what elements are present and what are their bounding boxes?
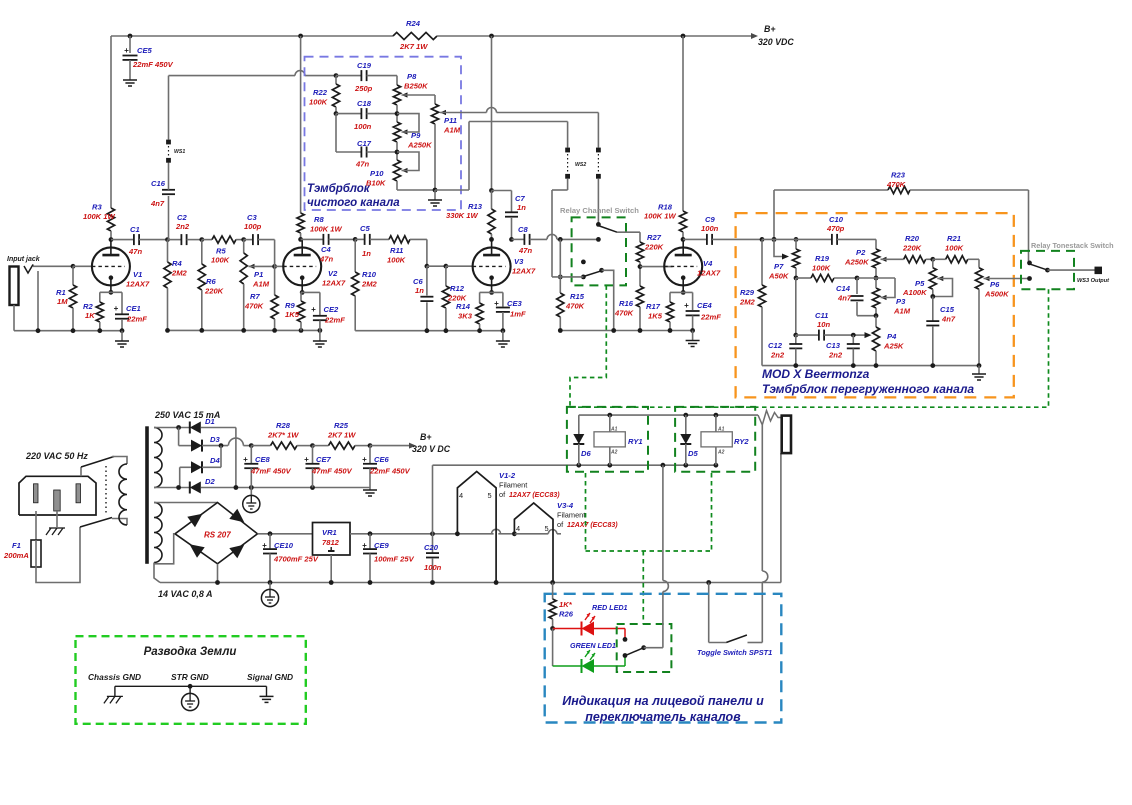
svg-text:100n: 100n — [424, 563, 442, 572]
wire tone stack bottom node — [397, 189, 435, 191]
transformer core — [145, 426, 149, 564]
svg-text:330K 1W: 330K 1W — [446, 211, 478, 220]
svg-text:R10: R10 — [362, 270, 377, 279]
wire WS1 up and right to tone stack R22 — [168, 76, 170, 140]
svg-text:+: + — [362, 541, 367, 550]
regulator VR1 7812 — [313, 523, 351, 556]
svg-text:C12: C12 — [768, 341, 783, 350]
svg-text:V2: V2 — [328, 269, 338, 278]
capacitor C2 2n2 — [168, 239, 182, 241]
ground V4 stage — [692, 331, 694, 341]
svg-text:5: 5 — [545, 524, 549, 533]
svg-text:C8: C8 — [518, 225, 528, 234]
node P3 bottom dot — [874, 313, 879, 318]
svg-text:Filament: Filament — [499, 481, 527, 490]
resistor R16 470K — [639, 267, 641, 286]
svg-text:5: 5 — [488, 491, 492, 500]
svg-text:CE8: CE8 — [255, 455, 271, 464]
capacitor CE10 4700mF 25V — [269, 534, 271, 549]
capacitor CE6 22mF 450V — [369, 446, 371, 464]
svg-text:12AX7: 12AX7 — [126, 280, 150, 289]
resistor R21 100K — [933, 258, 946, 260]
svg-text:2K7 1W: 2K7 1W — [327, 431, 356, 440]
svg-text:D6: D6 — [581, 449, 591, 458]
node grid junction dot — [71, 264, 76, 269]
control link RY2 to LED switch — [711, 473, 713, 551]
heater V3-4 filament — [514, 503, 553, 583]
svg-text:C5: C5 — [360, 224, 370, 233]
svg-text:100p: 100p — [244, 222, 262, 231]
svg-text:P6: P6 — [990, 280, 1000, 289]
potentiometer P5 A100K — [932, 259, 934, 267]
potentiometer P9 A250K — [393, 122, 400, 142]
svg-text:WS1: WS1 — [174, 149, 185, 155]
svg-text:R1: R1 — [56, 288, 66, 297]
svg-text:1K*: 1K* — [559, 600, 573, 609]
svg-text:2K7* 1W: 2K7* 1W — [267, 431, 299, 440]
resistor R4 2M2 — [167, 240, 169, 262]
svg-text:Relay Channel Switch: Relay Channel Switch — [560, 206, 639, 215]
diode D1 — [190, 422, 201, 434]
capacitor CE8 47mF 450V — [250, 446, 252, 464]
svg-text:C7: C7 — [515, 194, 525, 203]
potentiometer P2 A250K — [875, 239, 877, 249]
wire hop over filament leg V1-2 pin5 — [492, 529, 501, 534]
wire switch arm to R27 — [617, 231, 640, 233]
wire LV secondary bottom to bridge left — [154, 563, 160, 583]
svg-text:R16: R16 — [619, 299, 634, 308]
capacitor C6 1n — [426, 266, 428, 295]
potentiometer P6 A500K — [978, 259, 980, 267]
box relay RY2 — [675, 407, 755, 472]
node C7 bottom dot — [509, 237, 514, 242]
svg-text:A25K: A25K — [883, 342, 904, 351]
svg-text:R28: R28 — [276, 421, 291, 430]
svg-text:Input jack: Input jack — [7, 256, 41, 263]
wire V2 stage ground rail — [168, 329, 320, 331]
svg-text:Filament: Filament — [557, 511, 585, 520]
node P5 bottom dot — [930, 294, 935, 299]
svg-text:A250K: A250K — [844, 258, 869, 267]
svg-text:R3: R3 — [92, 203, 102, 212]
resistor R3 100K 1W — [110, 36, 112, 208]
svg-text:220K: 220K — [644, 243, 664, 252]
diode D6 — [578, 415, 580, 434]
svg-text:12AX7 (ECC83): 12AX7 (ECC83) — [509, 492, 560, 499]
svg-text:CE3: CE3 — [507, 299, 523, 308]
node C6 top dot — [425, 264, 430, 269]
resistor R9 1K5 — [300, 292, 302, 301]
capacitor CE9 100mF 25V — [369, 534, 371, 549]
wire V3 stage ground rail — [355, 330, 503, 332]
wire D1 to right drop — [201, 427, 236, 429]
svg-text:R17: R17 — [646, 302, 661, 311]
svg-text:+: + — [362, 455, 367, 464]
capacitor CE4 22mF electrolytic — [692, 292, 694, 310]
ground overdrive tonestack — [978, 366, 980, 374]
svg-text:C3: C3 — [247, 213, 257, 222]
svg-text:R23: R23 — [891, 171, 906, 180]
box relay channel switch — [572, 217, 626, 285]
wire V1 ground rail — [14, 330, 122, 332]
switch WS1 — [166, 158, 171, 163]
svg-text:C17: C17 — [357, 139, 372, 148]
svg-text:R18: R18 — [658, 203, 673, 212]
svg-text:2M2: 2M2 — [739, 298, 756, 307]
svg-text:10n: 10n — [817, 320, 830, 329]
wire hop over D1-D2 link — [228, 438, 243, 445]
svg-text:C11: C11 — [815, 311, 828, 320]
node V1 anode dot — [109, 237, 114, 242]
resistor R29 2M2 — [761, 239, 763, 285]
capacitor C8 47n — [512, 238, 525, 240]
svg-text:+: + — [494, 299, 499, 308]
svg-text:R9: R9 — [285, 301, 295, 310]
terminal WS3 output — [1095, 267, 1103, 275]
wire cable squiggle to connector — [758, 411, 782, 425]
wire tone stack gnd-node to WS2 left — [435, 189, 469, 191]
svg-text:R13: R13 — [468, 202, 483, 211]
resistor R18 100K 1W — [682, 36, 684, 211]
diode D4 — [180, 466, 191, 468]
node C11-C13 dot — [851, 333, 856, 338]
svg-text:A1M: A1M — [443, 126, 461, 135]
node R12 top dot — [444, 264, 449, 269]
resistor R20 220K — [881, 258, 904, 260]
wire squiggle tap down to toggle switch — [761, 425, 763, 571]
svg-text:B250K: B250K — [404, 82, 428, 91]
svg-text:CE9: CE9 — [374, 541, 390, 550]
svg-text:1n: 1n — [362, 249, 371, 258]
svg-text:320 VDC: 320 VDC — [758, 37, 794, 47]
wire VR1 ground pin — [330, 555, 332, 583]
node V2 cathode junction — [300, 290, 305, 295]
ground earth circle below CE10 rail — [269, 583, 271, 590]
svg-text:A100K: A100K — [902, 288, 927, 297]
svg-text:P3: P3 — [896, 297, 906, 306]
wire hop over R13 drop — [487, 108, 497, 113]
node P9-P10-C17 dot — [395, 150, 400, 155]
resistor R7 470K — [274, 240, 276, 295]
svg-text:R12: R12 — [450, 284, 465, 293]
connector footswitch jack — [782, 416, 791, 454]
svg-text:RS 207: RS 207 — [204, 531, 231, 540]
svg-text:+: + — [311, 305, 316, 314]
wire B+ rail left segment — [111, 35, 393, 37]
ground below CE5 — [123, 79, 137, 81]
svg-text:100K: 100K — [812, 264, 831, 273]
svg-text:470K: 470K — [565, 302, 585, 311]
transformer primary winding — [119, 464, 127, 525]
wire D3 to output node — [202, 445, 228, 447]
svg-text:12AX7: 12AX7 — [697, 269, 721, 278]
svg-text:of: of — [557, 520, 564, 529]
svg-text:R20: R20 — [905, 234, 920, 243]
svg-text:4n7: 4n7 — [941, 315, 956, 324]
svg-text:22mF 450V: 22mF 450V — [369, 467, 411, 476]
svg-text:D4: D4 — [210, 456, 220, 465]
resistor R28 2K7 1W — [251, 445, 270, 447]
box LED selector switch — [617, 624, 672, 672]
svg-text:F1: F1 — [12, 541, 21, 550]
svg-text:200mA: 200mA — [3, 551, 29, 560]
resistor R26 1K — [552, 583, 554, 600]
svg-text:D5: D5 — [688, 449, 698, 458]
svg-text:Chassis GND: Chassis GND — [88, 672, 141, 682]
svg-text:V1: V1 — [133, 270, 142, 279]
svg-text:C16: C16 — [151, 179, 166, 188]
svg-text:2n2: 2n2 — [828, 351, 843, 360]
node V4 grid dot — [638, 264, 643, 269]
switch relay tonestack contacts — [1027, 261, 1032, 266]
wire input jack to V1 grid — [33, 265, 73, 267]
capacitor C10 470p — [796, 238, 832, 240]
svg-text:R21: R21 — [947, 234, 961, 243]
resistor R11 100K — [389, 236, 410, 243]
svg-text:чистого канала: чистого канала — [307, 197, 400, 209]
wire bridge minus down to 0V rail — [217, 564, 219, 583]
svg-text:STR GND: STR GND — [171, 672, 209, 682]
svg-text:R27: R27 — [647, 233, 662, 242]
wire P7 bottom to C11 node — [795, 278, 797, 335]
capacitor C18 100n — [336, 113, 361, 115]
svg-text:2n2: 2n2 — [175, 222, 190, 231]
svg-text:R26: R26 — [559, 610, 574, 619]
junction dots on B+ rail — [128, 34, 133, 39]
wire rail corner up to connector — [780, 453, 782, 582]
ground STR earth circle — [189, 686, 191, 693]
capacitor CE5 22mF 450V — [129, 36, 131, 53]
capacitor CE3 1mF electrolytic — [502, 292, 504, 306]
svg-text:A2: A2 — [717, 450, 725, 456]
svg-text:C13: C13 — [826, 341, 841, 350]
svg-text:12AX7 (ECC83): 12AX7 (ECC83) — [567, 522, 618, 529]
svg-text:A1M: A1M — [893, 307, 911, 316]
svg-text:A250K: A250K — [407, 141, 432, 150]
wire VR1 output +12V — [350, 533, 494, 535]
capacitor C5 1n — [355, 238, 364, 240]
node R29 top dot — [760, 237, 765, 242]
svg-text:A1: A1 — [717, 427, 725, 433]
capacitor C9 100n — [683, 238, 707, 240]
svg-text:470K: 470K — [614, 309, 634, 318]
triode V3 12AX7 — [473, 247, 511, 285]
svg-text:1K: 1K — [85, 311, 95, 320]
wire HV secondary top to D1 — [154, 427, 190, 429]
svg-text:WS2: WS2 — [575, 162, 586, 168]
svg-text:Signal GND: Signal GND — [247, 672, 293, 682]
svg-text:V4: V4 — [703, 259, 713, 268]
svg-text:R8: R8 — [314, 215, 324, 224]
node R20-R21 dot — [930, 257, 935, 262]
node V4 anode dot — [681, 237, 686, 242]
svg-text:P4: P4 — [887, 332, 897, 341]
svg-text:12AX7: 12AX7 — [512, 267, 536, 276]
capacitor CE7 47mF 450V — [312, 446, 314, 464]
svg-text:47n: 47n — [128, 247, 142, 256]
resistor R15 470K — [559, 239, 561, 293]
wire R11 to V3 grid corner — [426, 239, 428, 266]
svg-text:P9: P9 — [411, 131, 421, 140]
node R26 bottom dot — [550, 626, 555, 631]
wire overdrive tonestack ground rail — [762, 365, 979, 367]
svg-text:CE10: CE10 — [274, 541, 294, 550]
resistor R12 220K — [445, 266, 447, 286]
svg-text:1mF: 1mF — [510, 310, 526, 319]
diode D3 — [191, 440, 202, 452]
heater V1-2 filament — [457, 472, 496, 583]
diode D2 — [190, 482, 201, 494]
svg-text:B+: B+ — [420, 432, 432, 442]
svg-text:R4: R4 — [172, 259, 182, 268]
svg-text:Разводка Земли: Разводка Земли — [144, 646, 237, 658]
svg-text:V1-2: V1-2 — [499, 471, 516, 480]
ground signal symbol — [266, 686, 268, 696]
transformer HV secondary winding — [154, 428, 162, 488]
svg-text:C1: C1 — [130, 225, 140, 234]
svg-text:+: + — [262, 541, 267, 550]
control link channel switch to relays — [570, 285, 606, 407]
capacitor CE2 22mF electrolytic — [319, 292, 321, 315]
svg-text:1n: 1n — [415, 286, 424, 295]
svg-text:of: of — [499, 490, 506, 499]
svg-text:250p: 250p — [354, 84, 373, 93]
svg-text:220 VAC 50 Hz: 220 VAC 50 Hz — [25, 451, 88, 461]
svg-text:22mF: 22mF — [700, 313, 721, 322]
wire hop over R8 drop — [295, 71, 305, 76]
svg-text:47n: 47n — [319, 255, 333, 264]
wire HV bottom rail — [201, 487, 370, 489]
svg-text:22mF: 22mF — [126, 315, 147, 324]
wire V4 stage ground rail — [560, 330, 692, 332]
switch mains double pole — [80, 467, 82, 476]
wire +12V relay rail riser — [432, 465, 434, 534]
box relay RY1 — [567, 407, 648, 472]
switch WS2 — [565, 148, 570, 153]
svg-text:100K: 100K — [945, 244, 964, 253]
node B+ feed dot — [249, 443, 254, 448]
svg-text:100K 1W: 100K 1W — [644, 212, 676, 221]
resistor R2 1K — [99, 292, 101, 302]
node P8-P9-C18 dot — [395, 111, 400, 116]
svg-text:R15: R15 — [570, 292, 585, 301]
svg-text:C20: C20 — [424, 543, 439, 552]
node P7 bottom dot — [794, 276, 799, 281]
capacitor C14 4n7 — [856, 278, 858, 294]
svg-text:+: + — [243, 455, 248, 464]
potentiometer P3 A1M — [872, 288, 879, 308]
node C2 right dot — [199, 237, 204, 242]
wire +12V relay rail — [433, 464, 716, 466]
svg-text:C14: C14 — [836, 284, 851, 293]
wire P11 wiper line to WS2 right — [440, 110, 446, 115]
svg-text:7812: 7812 — [322, 538, 340, 547]
switch relay contact lower — [581, 260, 586, 265]
svg-text:R2: R2 — [83, 302, 93, 311]
node R22 bottom dot — [334, 111, 339, 116]
LED RED LED1 — [553, 628, 582, 630]
svg-text:Тэмбрблок: Тэмбрблок — [307, 183, 371, 195]
wire 0V heater rail — [160, 582, 781, 584]
svg-text:VR1: VR1 — [322, 528, 337, 537]
svg-text:+: + — [124, 46, 129, 55]
svg-text:4n7: 4n7 — [150, 199, 165, 208]
resistor R14 3K3 — [479, 292, 481, 303]
svg-text:2M2: 2M2 — [361, 280, 378, 289]
svg-text:R5: R5 — [216, 247, 226, 256]
svg-text:R14: R14 — [456, 302, 471, 311]
svg-text:CE7: CE7 — [316, 455, 332, 464]
svg-text:47n: 47n — [355, 160, 369, 169]
svg-text:RY2: RY2 — [734, 437, 749, 446]
svg-text:14 VAC 0,8 A: 14 VAC 0,8 A — [158, 589, 213, 599]
svg-text:2M2: 2M2 — [171, 269, 188, 278]
node CE7 dot — [310, 443, 315, 448]
svg-text:CE6: CE6 — [374, 455, 390, 464]
node V3 cathode junction — [489, 290, 494, 295]
control link RY1 to LED switch — [585, 473, 587, 551]
control link main horizontal — [570, 406, 1049, 408]
svg-text:+: + — [114, 304, 119, 313]
triode V1 12AX7 — [92, 247, 130, 285]
relay coil RY1 — [594, 432, 625, 447]
svg-text:C10: C10 — [829, 215, 844, 224]
svg-text:A50K: A50K — [768, 272, 789, 281]
svg-text:320 V DC: 320 V DC — [412, 444, 451, 454]
resistor R22 100K — [335, 76, 337, 84]
svg-text:C2: C2 — [177, 213, 187, 222]
wire D1 node down to D3 — [178, 428, 180, 446]
capacitor C13 2n2 — [852, 335, 854, 344]
wire B+ DC arrow — [370, 445, 411, 447]
svg-text:WS3 Output: WS3 Output — [1077, 278, 1110, 284]
node V2 grid dot — [272, 264, 277, 269]
svg-text:R29: R29 — [740, 288, 755, 297]
ground chassis at plug — [49, 527, 65, 529]
svg-text:+: + — [304, 455, 309, 464]
svg-text:переключатель каналов: переключатель каналов — [585, 710, 741, 724]
wire plug earth pin to chassis ground — [56, 511, 58, 527]
potentiometer P1 A1M — [243, 240, 245, 253]
svg-text:P5: P5 — [915, 279, 925, 288]
potentiometer P10 B10K — [393, 160, 400, 181]
svg-text:100K: 100K — [211, 256, 230, 265]
node V1 cathode junction — [109, 290, 114, 295]
wire V4 output up to R23 — [772, 237, 777, 242]
wire bridge plus output — [258, 533, 313, 535]
svg-text:MOD X Beermonza: MOD X Beermonza — [762, 367, 870, 381]
bridge rectifier RS 207 — [175, 503, 258, 564]
svg-text:D1: D1 — [205, 417, 215, 426]
svg-text:+: + — [684, 301, 689, 310]
svg-text:CE5: CE5 — [137, 46, 153, 55]
svg-text:2n2: 2n2 — [770, 351, 785, 360]
wire relay coil supply — [579, 414, 758, 416]
svg-text:B+: B+ — [764, 24, 776, 34]
svg-text:P7: P7 — [774, 262, 784, 271]
potentiometer P8 B250K — [396, 76, 398, 85]
control link down to LED switch — [642, 551, 644, 624]
box relay tonestack switch — [1021, 251, 1074, 289]
potentiometer P4 A25K — [875, 316, 877, 327]
wire hop over WS2 drop on signal line — [547, 234, 557, 239]
transformer LV secondary winding — [154, 503, 162, 563]
svg-text:R25: R25 — [334, 421, 349, 430]
box clean channel tone stack — [305, 57, 462, 210]
resistor R5 100K — [202, 239, 212, 241]
resistor R13 330K 1W — [491, 191, 493, 210]
resistor R8 100K 1W — [300, 36, 302, 213]
